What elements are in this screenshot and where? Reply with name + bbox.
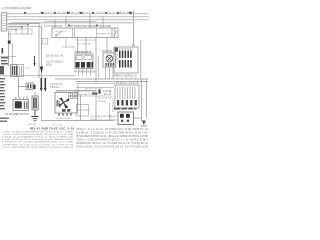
relay R1 box	[75, 54, 93, 69]
wire ladder line3	[76, 95, 114, 97]
node small box on fan wires	[42, 39, 48, 45]
node pin circles box A	[78, 51, 79, 52]
svg-text:4-3 FR WIPER & WASHER: 4-3 FR WIPER & WASHER	[2, 7, 31, 10]
svg-text:5 FR WIPER MOTOR : 2-18 (A) 16: 5 FR WIPER MOTOR : 2-18 (A) 16 L-R WASHE…	[2, 141, 74, 144]
resistor R4 inside ECU	[116, 54, 119, 63]
svg-text:7 IG SW : 20A L-B WIPER FR 2-1: 7 IG SW : 20A L-B WIPER FR 2-16 (B) COMB…	[2, 146, 74, 149]
capacitor C9 dark square1	[120, 114, 124, 118]
wire relay drop2	[85, 38, 87, 54]
wire m2 top stubs	[58, 91, 67, 94]
svg-text:RELAY AND FUSE LOC. 2-16: RELAY AND FUSE LOC. 2-16	[30, 126, 74, 130]
svg-text:OFF INT LO: OFF INT LO	[55, 31, 66, 33]
wire arrow drop continue	[40, 92, 42, 121]
wire collector	[8, 33, 28, 35]
svg-text:J/B No.2: J/B No.2	[50, 86, 60, 89]
wire bottom link	[41, 120, 113, 122]
wire ladder line2	[74, 90, 98, 92]
motor M2 brush hatch	[57, 100, 58, 107]
wire h56	[0, 56, 16, 58]
svg-text:14 L-B 2-16 (B): 14 L-B 2-16 (B)	[56, 118, 71, 120]
wire stub x66	[65, 38, 67, 47]
relay R3 box bottom-left	[13, 100, 29, 111]
wire side drop	[12, 43, 14, 68]
wire staircase3	[7, 30, 16, 35]
svg-text:WIPER CONTROL 14: WIPER CONTROL 14	[113, 75, 137, 78]
wire c7 drop	[109, 103, 111, 121]
wire c8 feed	[112, 98, 114, 112]
ground G2	[142, 121, 146, 126]
connector C1 top-left tall box	[1, 13, 7, 31]
connector C4 pin box	[11, 65, 18, 77]
ground G1	[34, 110, 36, 117]
wire mid horizontal	[0, 75, 75, 77]
wire c6 vline	[77, 84, 79, 96]
label legend left rows	[2, 130, 74, 149]
wire feed arrow short	[34, 56, 36, 63]
svg-text:16 L-W (A) 7: 16 L-W (A) 7	[78, 109, 91, 112]
svg-text:22 L-O: 22 L-O	[104, 94, 111, 96]
fuse F2 dark bar	[2, 48, 4, 54]
ECU U2 light pins	[118, 87, 136, 99]
svg-text:2 J/B No.2 : FUSE WIPER 20A IG: 2 J/B No.2 : FUSE WIPER 20A IG1 RELAY : …	[2, 133, 74, 136]
node junction dots	[15, 29, 16, 30]
motor M2 armature star	[58, 98, 69, 109]
wire bus3	[7, 19, 149, 21]
connector C7 dark labels	[99, 90, 101, 94]
ECU U1 corner mark	[115, 48, 118, 52]
wire link h40	[76, 39, 96, 41]
node tick marks on bus	[24, 12, 132, 14]
svg-text:J/B No.2 FUSE : 22 L-O 14 INT: J/B No.2 FUSE : 22 L-O 14 INT VOL SW 2-8…	[76, 146, 148, 149]
svg-text:16 L-W (A) 2-18 COMB SW: 16 L-W (A) 2-18 COMB SW	[90, 115, 117, 118]
ECU U1 pin row1	[119, 51, 132, 59]
svg-text:FR WIPER MOTOR: FR WIPER MOTOR	[74, 71, 95, 74]
svg-text:18 L-W (A) 2-18: 18 L-W (A) 2-18	[46, 55, 64, 58]
wire left drop	[7, 31, 9, 42]
ECU U2 dark bottom marks	[117, 100, 137, 106]
wire link h47	[62, 46, 75, 48]
svg-text:16 L-W (A) 2-18: 16 L-W (A) 2-18	[77, 93, 93, 96]
wire drop b-left	[97, 56, 99, 79]
node dark chunk	[92, 92, 98, 94]
switch SW1 washer cell mark	[114, 31, 118, 36]
connector C3 dark left edge	[0, 66, 4, 74]
svg-text:3 2-18 (A) : 16 L-R FR WASHER: 3 2-18 (A) : 16 L-R FR WASHER MOTOR 14 L…	[2, 136, 74, 139]
wire bus1	[7, 13, 149, 15]
svg-text:6 WIPER RELAY : 18 L-W (A) 2-1: 6 WIPER RELAY : 18 L-W (A) 2-18 J/B No.2…	[2, 143, 73, 146]
wire c8 right	[134, 117, 142, 119]
svg-text:22 L-O 14 L-B: 22 L-O 14 L-B	[98, 98, 112, 100]
node dot1	[121, 120, 123, 122]
wire drop to SW pins	[54, 20, 56, 28]
svg-text:(IGN): (IGN)	[46, 64, 52, 67]
wire boxB pin stubs down	[106, 67, 114, 79]
wire ladder line1	[76, 87, 114, 89]
node dot2	[127, 120, 129, 122]
switch SW1 box	[52, 28, 118, 38]
node junction circle	[132, 44, 134, 46]
wire bl vertical	[18, 76, 20, 97]
connector C8 box	[118, 112, 134, 125]
wire c6 drop2	[95, 95, 97, 121]
diode D1 dark mark	[33, 85, 36, 89]
wire right vertical1	[141, 79, 143, 121]
wire lower bus1	[55, 78, 148, 80]
wire heavy arrow2	[44, 78, 46, 88]
motor M1 symbol	[106, 55, 113, 62]
ECU U1 box right	[114, 47, 138, 73]
ECU U2 box	[115, 85, 139, 108]
wire ECU pin stubs down	[118, 77, 136, 80]
node ECU top pin circles	[119, 48, 131, 49]
wire staircase1	[7, 25, 28, 35]
svg-text:1 CONN : 2-18 (A) L-W 16 FR WI: 1 CONN : 2-18 (A) L-W 16 FR WIPER MOTOR …	[2, 130, 73, 133]
wire drop2	[65, 17, 67, 28]
node header ticks	[68, 25, 70, 27]
wire drop3	[89, 14, 91, 28]
relay R1 contacts	[76, 62, 80, 68]
ECU U1 pin row2	[119, 60, 132, 68]
wire long drop	[95, 38, 97, 84]
label left pin rows	[1, 57, 9, 65]
motor M2 bottom marks	[62, 109, 66, 112]
wire heavy arrow1	[40, 78, 42, 88]
relay R3 coil blob	[15, 101, 22, 108]
svg-text:18 L-W 2-18: 18 L-W 2-18	[78, 44, 91, 46]
wire boxA pin stubs down	[79, 69, 91, 76]
connector C5 below motor pins	[58, 114, 72, 116]
label rows far bottom-left	[0, 118, 9, 123]
wire bus2	[7, 16, 149, 18]
capacitor C10 dark square2	[126, 114, 130, 118]
motor M2 box	[55, 93, 78, 114]
wire c6 drop1	[80, 95, 82, 121]
label above C8	[114, 108, 121, 110]
switch SW1 wiper contact	[56, 31, 62, 36]
wire fan1	[8, 24, 39, 79]
svg-text:2-16 (B): 2-16 (B)	[98, 101, 106, 103]
label left pin column lower	[0, 78, 6, 109]
svg-text:4 COMB SW : INT VOL 2-8 18 L-W: 4 COMB SW : INT VOL 2-8 18 L-W (A) J/B N…	[2, 138, 74, 141]
svg-text:J/B No.2 22 L-O 14: J/B No.2 22 L-O 14	[90, 119, 113, 121]
motor M1 box	[103, 53, 116, 67]
wire right vertical2	[146, 79, 148, 118]
motor M2 sub squares	[69, 94, 73, 98]
wire right edge vertical	[140, 40, 142, 78]
fusible link FL1 dark blob	[8, 41, 11, 44]
wire arrow A	[40, 67, 43, 74]
wire bus5 partial	[44, 20, 96, 22]
wire fan3	[8, 29, 32, 34]
wire staircase2	[7, 27, 22, 34]
connector C4 cell2	[18, 65, 24, 77]
svg-text:2-16 (B) 22 L-O 14 L-B: 2-16 (B) 22 L-O 14 L-B	[114, 82, 139, 85]
connector C11 hatched tall	[32, 96, 38, 110]
wire bl horizontal	[19, 86, 27, 88]
svg-text:WASHER SW: WASHER SW	[97, 33, 112, 36]
svg-text:FR WIPER AND WASHER SW [COMB]: FR WIPER AND WASHER SW [COMB]	[70, 25, 111, 28]
svg-text:2-16 (B): 2-16 (B)	[103, 91, 112, 93]
wire right bus drop	[132, 11, 134, 44]
wire fan2	[8, 26, 42, 78]
svg-text:FR WASHER MOTOR: FR WASHER MOTOR	[5, 113, 29, 116]
wire lower bus2	[76, 81, 148, 83]
wire c8 left	[112, 119, 117, 121]
wire below FL1	[7, 44, 9, 66]
wire m2 link1	[56, 90, 96, 92]
connector C12 box	[77, 105, 89, 117]
wire drop4	[102, 17, 104, 28]
wire m2 link2	[56, 91, 81, 93]
wire bus4	[10, 22, 133, 24]
relay R3 pins	[24, 102, 25, 110]
wire lower bus3	[76, 83, 114, 85]
node R3 top pins	[15, 97, 28, 98]
wire parallel drop	[9, 31, 11, 41]
label legend right rows	[76, 128, 149, 149]
resistor R2 hatched	[26, 83, 33, 90]
wire motor drop	[106, 38, 108, 53]
wire relay drop1	[77, 38, 79, 54]
wire bl vertical2	[34, 92, 36, 96]
